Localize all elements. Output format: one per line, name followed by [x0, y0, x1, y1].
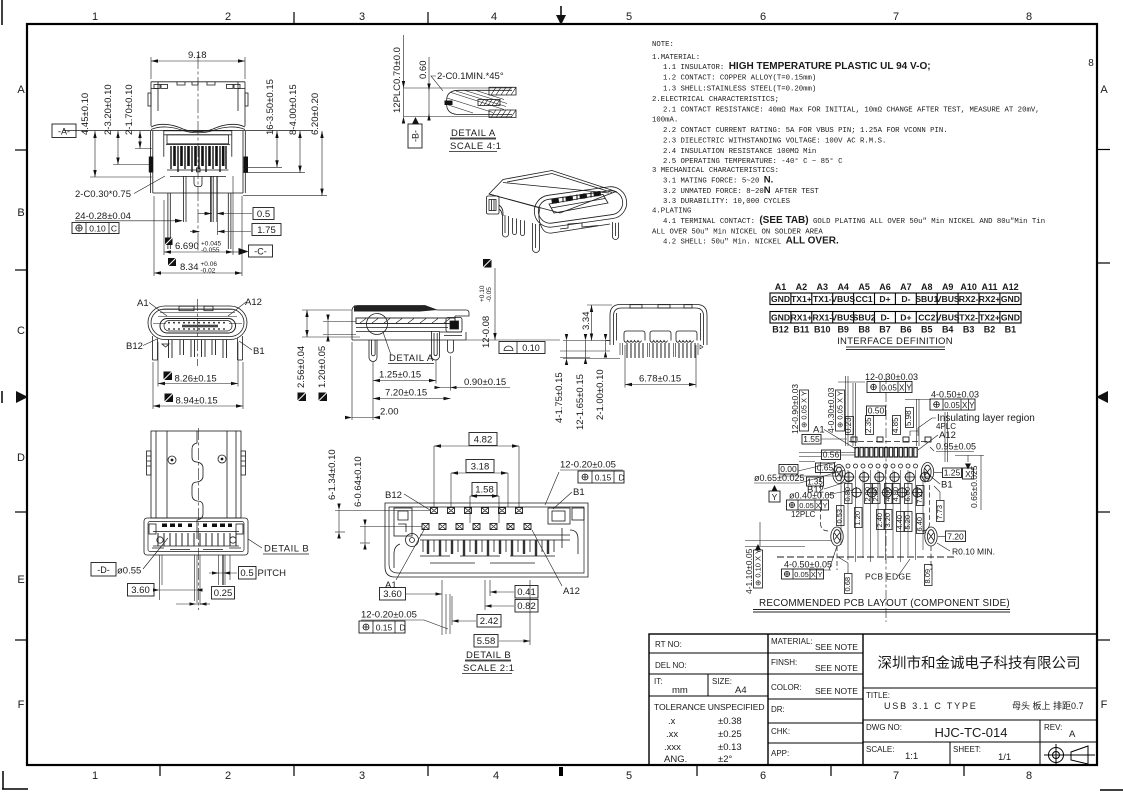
- svg-text:4.85: 4.85: [891, 417, 900, 433]
- svg-text:APP:: APP:: [771, 749, 789, 758]
- svg-text:6.78±0.15: 6.78±0.15: [639, 374, 681, 385]
- svg-text:GND: GND: [771, 313, 790, 323]
- svg-text:4: 4: [493, 770, 499, 782]
- svg-text:2: 2: [225, 770, 231, 782]
- view1 mouth top band: [164, 131, 232, 157]
- iso tongue block: [549, 191, 608, 213]
- black square marker below iso: [483, 259, 492, 268]
- zone ticks top: [294, 12, 428, 24]
- face view latch notches: [179, 306, 213, 311]
- pcb rotated 7.73 box: [934, 486, 944, 522]
- svg-text:8: 8: [1026, 11, 1032, 23]
- svg-text:B7: B7: [879, 325, 891, 335]
- svg-text:F: F: [18, 699, 25, 711]
- svg-text:B12: B12: [385, 490, 402, 501]
- svg-text:0.10: 0.10: [89, 224, 106, 234]
- svg-text:0.53: 0.53: [835, 509, 844, 524]
- datum D flag and 0.55: [91, 538, 168, 577]
- pcb pad extension verticals: [841, 470, 923, 562]
- svg-text:0.80: 0.80: [843, 487, 852, 502]
- iso legs: [503, 215, 619, 253]
- svg-text:2.80: 2.80: [871, 487, 880, 502]
- view1 center key square: [197, 168, 200, 172]
- view1 gdt frame 0.10 C: [72, 223, 119, 234]
- side view pin band: [356, 318, 455, 332]
- svg-text:B9: B9: [837, 325, 849, 335]
- trim mark bottom-left: [2, 771, 28, 789]
- svg-text:TX1+: TX1+: [791, 294, 812, 304]
- svg-text:A6: A6: [879, 282, 891, 292]
- svg-text:3: 3: [359, 770, 365, 782]
- pcb small rotated boxes 0.23 2.35 4.85 5.98: [846, 408, 914, 435]
- datum A label box: [52, 124, 76, 138]
- svg-text:1/1: 1/1: [998, 752, 1011, 763]
- svg-text:TX1-: TX1-: [813, 294, 832, 304]
- pcb left bottom lines: [745, 522, 837, 570]
- side view dark shell section: [354, 306, 437, 312]
- detailA arrows: [402, 81, 431, 124]
- title block values: [654, 642, 1076, 765]
- centering mark bottom: [559, 767, 563, 776]
- view1 center bottom hook: [194, 177, 202, 187]
- svg-text:D: D: [400, 623, 406, 633]
- svg-text:0.5: 0.5: [240, 568, 253, 579]
- view1 shell top cap: [151, 82, 245, 126]
- svg-text:4-0.50±0.05: 4-0.50±0.05: [784, 560, 832, 570]
- pcb label A1: [813, 425, 856, 450]
- bottom dim 6.78: [625, 345, 696, 388]
- svg-text:SEE NOTE: SEE NOTE: [815, 663, 858, 673]
- svg-text:.xxx: .xxx: [664, 742, 681, 753]
- detailB dim 2.42: [452, 596, 501, 627]
- svg-text:1.1 INSULATOR: HIGH TEMPERATUR: 1.1 INSULATOR: HIGH TEMPERATURE PLASTIC …: [663, 61, 931, 72]
- svg-text:A: A: [17, 84, 25, 96]
- face view label A1: [137, 298, 167, 316]
- svg-text:RX1+: RX1+: [791, 313, 813, 323]
- pcb 0.00 box: [779, 462, 845, 476]
- svg-text:2.1 CONTACT RESISTANCE: 40mΩ M: 2.1 CONTACT RESISTANCE: 40mΩ Max FOR INI…: [663, 106, 1040, 114]
- centering arrow right: [1096, 391, 1108, 403]
- svg-text:4.82: 4.82: [474, 435, 493, 446]
- pcb boxed 1.55: [802, 434, 847, 444]
- notes text block: [652, 41, 1045, 247]
- pcb lower ovals: [831, 527, 937, 546]
- detailB B-row pads: [431, 508, 523, 514]
- svg-text:4-0.50±0.03: 4-0.50±0.03: [931, 390, 979, 400]
- svg-text:B1: B1: [1005, 325, 1017, 335]
- title block small labels: [654, 637, 1062, 758]
- pcb top extension lines: [846, 376, 948, 462]
- view1 side emc tabs: [148, 93, 248, 106]
- view1 body outline: [151, 131, 246, 193]
- svg-text:100mA.: 100mA.: [652, 117, 678, 125]
- detailB dim 5.58: [474, 580, 530, 647]
- svg-text:COLOR:: COLOR:: [771, 683, 802, 692]
- svg-text:4.45±0.10: 4.45±0.10: [80, 93, 91, 135]
- svg-text:-A-: -A-: [58, 127, 70, 137]
- title block frame: [649, 634, 1097, 765]
- svg-text:X: X: [962, 401, 968, 410]
- svg-text:RX2-: RX2-: [959, 294, 979, 304]
- svg-text:A: A: [1100, 84, 1108, 96]
- svg-text:母头 板上 排距0.7: 母头 板上 排距0.7: [1012, 700, 1084, 711]
- pcb dim 12-0.30 top: [838, 372, 918, 393]
- svg-text:CC1: CC1: [855, 294, 872, 304]
- svg-text:4-0.30±0.03: 4-0.30±0.03: [826, 387, 836, 433]
- svg-text:7: 7: [893, 770, 899, 782]
- detailB right inner features: [548, 508, 584, 554]
- svg-text:NOTE:: NOTE:: [652, 41, 674, 49]
- svg-text:3: 3: [359, 11, 365, 23]
- svg-text:PITCH: PITCH: [258, 568, 287, 579]
- svg-text:2-3.20±0.10: 2-3.20±0.10: [103, 84, 114, 135]
- svg-text:2.00: 2.00: [380, 407, 399, 418]
- svg-text:TX2+: TX2+: [979, 313, 1000, 323]
- view1 dim 24-0.28: [75, 211, 183, 223]
- view1 centerline: [197, 55, 199, 252]
- svg-text:8.26±0.15: 8.26±0.15: [175, 374, 217, 385]
- trim mark top-left tick: [1, 0, 3, 25]
- svg-text:3.60: 3.60: [383, 589, 402, 600]
- tall view lower block corner posts: [149, 524, 243, 550]
- pcb left rotated dim 12-0.90: [790, 384, 809, 434]
- svg-text:2-1.00±0.10: 2-1.00±0.10: [595, 369, 606, 420]
- detailB label B1: [553, 487, 585, 509]
- tall view lower block pad row: [162, 524, 232, 528]
- view1 tongue lower edge: [167, 170, 229, 177]
- bottom view teeth: [627, 343, 695, 358]
- svg-text:6.40: 6.40: [915, 517, 924, 532]
- svg-text:A4: A4: [735, 685, 747, 696]
- svg-text:⊕ 0.05 X Y: ⊕ 0.05 X Y: [800, 391, 809, 428]
- svg-text:B12: B12: [126, 341, 143, 352]
- svg-text:SIZE:: SIZE:: [712, 677, 732, 686]
- svg-text:深圳市和金诚电子科技有限公司: 深圳市和金诚电子科技有限公司: [878, 655, 1081, 672]
- pcb label B12: [807, 480, 852, 496]
- svg-text:2.3 DIELECTRIC WITHSTANDING VO: 2.3 DIELECTRIC WITHSTANDING VOLTAGE: 100…: [663, 137, 886, 145]
- view1 dim 6.690: [164, 176, 233, 255]
- svg-text:12PLC: 12PLC: [791, 510, 816, 519]
- pcb boxed 7.20 right: [938, 531, 966, 542]
- detailA dim 0.60 line and text: [428, 57, 430, 117]
- pcb crosshair circles row2: [851, 487, 923, 498]
- svg-text:REV:: REV:: [1044, 723, 1062, 732]
- view1 dim 8.34: [154, 196, 242, 276]
- detailA chamfer note: [431, 71, 504, 91]
- zone row labels right: [1088, 58, 1108, 711]
- pcb R0.10 MIN label: [937, 543, 995, 557]
- svg-text:0.05: 0.05: [799, 501, 814, 510]
- svg-text:0.95±0.05: 0.95±0.05: [936, 442, 976, 452]
- zone ticks left: [15, 150, 27, 640]
- view1 dim 4.45 (left): [80, 93, 152, 177]
- side view legs: [369, 331, 454, 362]
- centering arrow top: [556, 15, 566, 25]
- detailA shell hatched top band: [489, 87, 516, 117]
- svg-text:3.34: 3.34: [581, 312, 592, 331]
- side view right latch block: [440, 318, 462, 336]
- pcb 4-0.50 bottom + gdt: [782, 560, 832, 580]
- title block left column lines: [649, 653, 1097, 765]
- svg-text:X: X: [899, 384, 905, 393]
- svg-text:2-1.70±0.10: 2-1.70±0.10: [124, 84, 135, 135]
- detailB dim 4.82: [434, 433, 519, 508]
- face view label B1: [239, 341, 265, 357]
- svg-text:B1: B1: [573, 487, 585, 498]
- svg-text:0.65: 0.65: [817, 463, 834, 473]
- pcb rotated 4-1.10 gdt left: [744, 544, 763, 594]
- pcb left ovals upper: [833, 463, 934, 484]
- face view top band lines: [158, 310, 237, 317]
- svg-text:B8: B8: [858, 325, 870, 335]
- svg-text:ANG.: ANG.: [664, 754, 687, 765]
- svg-text:VBUS: VBUS: [936, 313, 960, 323]
- svg-text:2.2 CONTACT CURRENT RATING: 5A: 2.2 CONTACT CURRENT RATING: 5A FOR VBUS …: [663, 127, 948, 135]
- svg-text:B2: B2: [984, 325, 996, 335]
- svg-text:8.94±0.15: 8.94±0.15: [176, 396, 218, 407]
- pcb 0.56 box: [799, 450, 855, 460]
- svg-text:B4: B4: [942, 325, 954, 335]
- svg-text:B11: B11: [793, 325, 809, 335]
- svg-text:B1: B1: [941, 480, 953, 491]
- svg-text:1.25: 1.25: [944, 468, 961, 478]
- svg-text:3.60: 3.60: [131, 585, 150, 596]
- svg-text:SCALE:: SCALE:: [866, 745, 894, 754]
- side view body: [352, 306, 469, 341]
- svg-text:A12: A12: [563, 586, 580, 597]
- view1 dim 9.18: [151, 50, 245, 79]
- detailB body outline: [385, 503, 588, 577]
- svg-text:X: X: [816, 501, 821, 510]
- svg-text:B12: B12: [772, 325, 789, 335]
- detailB dim 3.18: [451, 460, 508, 508]
- svg-text:VBUS: VBUS: [831, 294, 855, 304]
- svg-text:GND: GND: [1001, 313, 1020, 323]
- pcb rotated 0.65 dim right: [955, 455, 984, 510]
- svg-text:R0.10 MIN.: R0.10 MIN.: [952, 547, 995, 557]
- bottom dim 3.34: [581, 305, 612, 341]
- svg-text:A8: A8: [921, 282, 933, 292]
- svg-text:SCALE 4:1: SCALE 4:1: [450, 141, 502, 152]
- view1 legs below body: [168, 176, 231, 249]
- detailB dim 1.58: [470, 483, 499, 524]
- svg-text:D-: D-: [901, 294, 910, 304]
- svg-text:D+: D+: [900, 313, 911, 323]
- pcb rotated 0.68 box: [838, 557, 852, 594]
- svg-text:Y: Y: [969, 401, 975, 410]
- detailA mid hatched contact: [478, 100, 500, 106]
- svg-text:7: 7: [893, 11, 899, 23]
- svg-text:Y: Y: [817, 570, 822, 579]
- pcb rotated value boxes row2: [837, 506, 925, 534]
- svg-text:1.58: 1.58: [475, 485, 494, 496]
- svg-text:0.05: 0.05: [881, 384, 897, 393]
- pcb 0.65 box: [799, 462, 843, 473]
- iso mouth capsule: [532, 185, 629, 230]
- face view label A12: [228, 297, 262, 316]
- svg-text:DR:: DR:: [771, 705, 785, 714]
- detailA pin body: [445, 90, 513, 114]
- pcb edge dashed line: [777, 556, 956, 558]
- pcb label phi0.65: [754, 470, 845, 502]
- svg-text:±0.38: ±0.38: [718, 716, 742, 727]
- svg-text:4.2 SHELL: 50u″ Min. NICKEL AL: 4.2 SHELL: 50u″ Min. NICKEL ALL OVER.: [663, 236, 839, 247]
- pcb caption: [753, 598, 1010, 612]
- side view pcb plane line: [466, 339, 560, 341]
- svg-text:.xx: .xx: [666, 729, 678, 740]
- pcb rotated 8.09 box: [923, 565, 932, 586]
- svg-text:24-0.28±0.04: 24-0.28±0.04: [75, 211, 131, 222]
- detailB caption: [462, 650, 515, 674]
- svg-text:IT:: IT:: [654, 677, 662, 686]
- tall view rivets: [168, 455, 226, 464]
- svg-text:D: D: [17, 452, 25, 464]
- detailA caption: [449, 128, 502, 152]
- pin table row A labels: [775, 282, 1019, 292]
- svg-text:1.2 CONTACT: COPPER ALLOY(T=0.: 1.2 CONTACT: COPPER ALLOY(T=0.15mm): [663, 75, 816, 83]
- iso top face: [489, 171, 616, 214]
- svg-text:2: 2: [225, 11, 231, 23]
- pcb label A12: [918, 430, 956, 450]
- svg-text:12-0.20±0.05: 12-0.20±0.05: [361, 610, 417, 621]
- svg-text:4.PLATING: 4.PLATING: [652, 208, 691, 216]
- pcb small circle row: [846, 464, 918, 468]
- svg-text:PCB EDGE: PCB EDGE: [865, 572, 911, 582]
- side dim 1.25: [373, 360, 436, 384]
- svg-text:DETAIL B: DETAIL B: [264, 544, 309, 555]
- svg-text:1: 1: [92, 770, 98, 782]
- svg-text:mm: mm: [672, 685, 688, 696]
- tall view side tabs: [147, 451, 246, 475]
- side dim 2.00: [345, 342, 399, 420]
- svg-text:0.50: 0.50: [868, 406, 885, 416]
- svg-text:5: 5: [626, 770, 632, 782]
- detailB label A1: [385, 528, 425, 591]
- datum A line: [63, 129, 313, 131]
- svg-text:CC2: CC2: [918, 313, 935, 323]
- svg-text:2.42: 2.42: [480, 616, 499, 627]
- svg-text:D-: D-: [880, 313, 889, 323]
- svg-text:3.20: 3.20: [883, 513, 892, 528]
- svg-text:12-0.08: 12-0.08: [481, 316, 492, 348]
- svg-text:5.98: 5.98: [904, 410, 913, 426]
- svg-text:2.5 OPERATING TEMPERATURE: -40: 2.5 OPERATING TEMPERATURE: -40° C ~ 85° …: [663, 157, 843, 166]
- svg-text:0.15: 0.15: [376, 623, 393, 633]
- pcb edge label: [865, 559, 911, 582]
- DETAIL B leader: [248, 539, 309, 555]
- svg-text:E: E: [17, 574, 24, 586]
- view1 dim 2-1.70 (left): [124, 84, 152, 148]
- svg-text:A5: A5: [858, 282, 870, 292]
- svg-text:INTERFACE DEFINITION: INTERFACE DEFINITION: [837, 336, 953, 347]
- pcb boxed 1.25 X: [934, 455, 974, 479]
- svg-text:SEE NOTE: SEE NOTE: [815, 686, 858, 696]
- svg-text:2.56±0.04: 2.56±0.04: [296, 346, 307, 388]
- svg-text:A7: A7: [900, 282, 912, 292]
- svg-text:4-1.10±0.05: 4-1.10±0.05: [744, 548, 754, 594]
- pin table row B labels: [772, 325, 1016, 335]
- svg-text:A10: A10: [960, 282, 977, 292]
- leader to DETAIL A caption: [383, 332, 391, 355]
- zone column labels bottom: [92, 770, 1032, 782]
- svg-text:1.20: 1.20: [853, 511, 862, 526]
- svg-text:C: C: [17, 325, 25, 337]
- view1 shell curl wave: [151, 124, 245, 131]
- svg-text:VBUS: VBUS: [936, 294, 960, 304]
- svg-text:5: 5: [626, 11, 632, 23]
- svg-text:±2°: ±2°: [718, 754, 732, 765]
- view1 latch windows: [154, 84, 240, 88]
- svg-text:1:1: 1:1: [905, 751, 918, 762]
- third angle projection symbol: [1044, 744, 1095, 766]
- svg-text:3.3 DURABILITY: 10,000 CYCLES: 3.3 DURABILITY: 10,000 CYCLES: [663, 198, 791, 206]
- svg-text:12-0.20±0.05: 12-0.20±0.05: [560, 460, 616, 471]
- svg-text:8.34: 8.34: [180, 262, 199, 273]
- svg-text:GND: GND: [1001, 294, 1020, 304]
- view1 boxed 1.75: [190, 176, 281, 236]
- zone ticks right: [1097, 150, 1110, 641]
- bottom view contact blocks: [624, 331, 697, 342]
- view1 chamfer note 2-C0.30*0.75: [75, 176, 165, 200]
- svg-text:3 MECHANICAL CHARACTERISTICS:: 3 MECHANICAL CHARACTERISTICS:: [652, 167, 779, 175]
- face view outer shell: [148, 306, 247, 340]
- pcb centerline vertical: [885, 374, 887, 622]
- svg-text:0.05: 0.05: [794, 570, 809, 579]
- svg-text:A9: A9: [942, 282, 954, 292]
- svg-text:1.75: 1.75: [257, 225, 276, 236]
- tall view center zigzag seam: [192, 431, 203, 539]
- svg-text:0.65±0.025: 0.65±0.025: [969, 465, 979, 508]
- svg-text:2.4 INSULATION RESISTANCE 100M: 2.4 INSULATION RESISTANCE 100MΩ Min: [663, 148, 816, 156]
- svg-text:Y: Y: [772, 492, 778, 502]
- dim 0.5 PITCH: [209, 555, 286, 585]
- dim 3.60 (tall view): [128, 584, 203, 601]
- pcb label B1: [929, 475, 953, 491]
- svg-text:Y: Y: [906, 384, 912, 393]
- svg-text:A: A: [1069, 729, 1076, 740]
- svg-text:DETAIL A: DETAIL A: [451, 128, 496, 139]
- pin table row 1 grid: [770, 293, 1021, 305]
- face view label B12: [126, 339, 157, 352]
- svg-text:0.70±0.0: 0.70±0.0: [392, 47, 403, 84]
- view1 dim 2-3.20 (left): [103, 84, 152, 164]
- detail A callout circle: [367, 314, 388, 335]
- face view centerline: [197, 299, 199, 366]
- detailB A-row pads: [422, 524, 531, 530]
- svg-text:SCALE 2:1: SCALE 2:1: [463, 663, 515, 674]
- pin table row 2 cells: [771, 313, 1020, 323]
- svg-text:7.73: 7.73: [935, 505, 944, 520]
- svg-text:0.56: 0.56: [823, 450, 840, 460]
- svg-text:0.10: 0.10: [522, 343, 540, 353]
- detailB dim 3.60: [380, 580, 443, 635]
- svg-text:.x: .x: [668, 716, 676, 727]
- detailA extension vertical line: [403, 35, 405, 117]
- svg-text:0.82: 0.82: [517, 601, 536, 612]
- svg-text:B6: B6: [900, 325, 912, 335]
- view1 dim 8-4.00 (right): [243, 84, 305, 172]
- detailB label B12: [385, 490, 430, 510]
- side dim 0.90: [435, 356, 511, 391]
- side view caption DETAIL A: [388, 353, 434, 364]
- side 12-0.08 extension: [494, 268, 496, 340]
- boxed flatness 0.10: [499, 342, 545, 354]
- svg-text:SHEET:: SHEET:: [953, 745, 981, 754]
- svg-text:0.90±0.15: 0.90±0.15: [464, 377, 506, 388]
- detailB dim 0.41: [490, 586, 538, 599]
- svg-text:GND: GND: [771, 294, 790, 304]
- svg-text:-0.02: -0.02: [201, 268, 216, 275]
